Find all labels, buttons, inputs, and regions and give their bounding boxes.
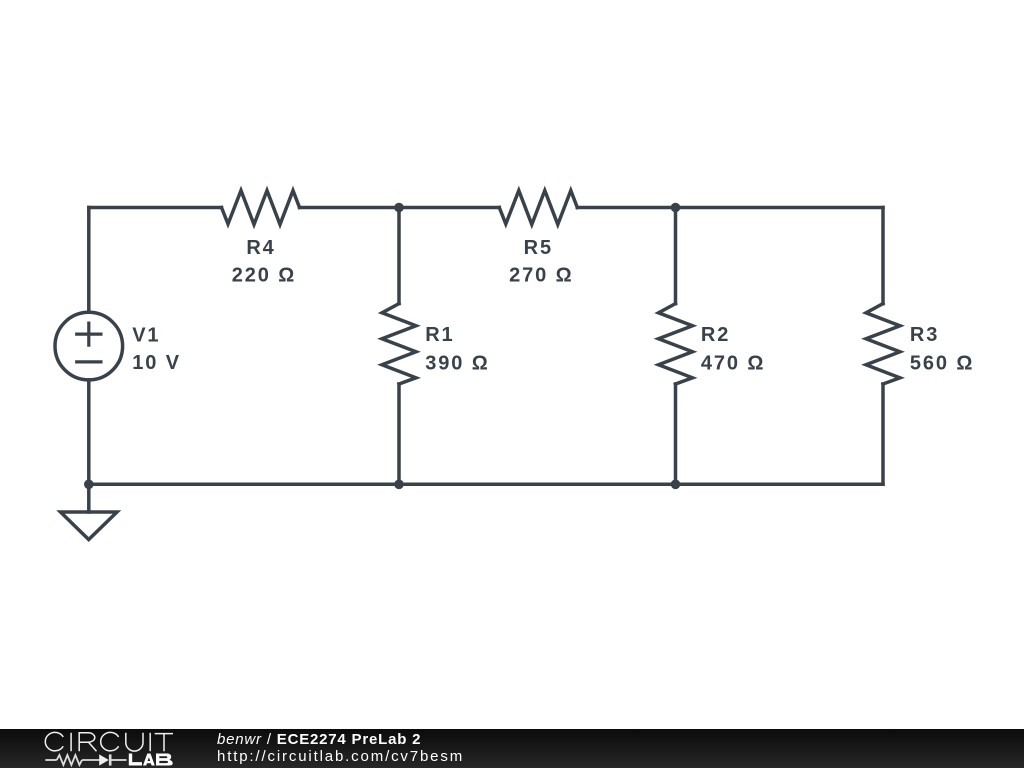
footer title line: benwr / ECE2274 PreLab 2	[217, 731, 421, 748]
logo diode cathode bar	[109, 754, 112, 765]
svg-text:220 Ω: 220 Ω	[232, 265, 296, 287]
wire ground stub	[87, 484, 91, 512]
node B junction dot (top, R2)	[671, 203, 681, 213]
svg-text:R4: R4	[246, 237, 275, 259]
logo resistor zigzag	[57, 755, 82, 765]
V1 plus sign	[77, 323, 101, 345]
resistor R3 zigzag	[866, 304, 900, 384]
logo resistor wire lead left	[45, 759, 56, 761]
svg-text:V1: V1	[132, 325, 160, 347]
logo letter U	[126, 733, 143, 751]
voltage source V1 circle	[55, 312, 123, 380]
svg-text:270 Ω: 270 Ω	[509, 265, 573, 287]
junction dot bottom-left (ground node)	[84, 480, 94, 490]
svg-text:560 Ω: 560 Ω	[910, 352, 974, 374]
svg-text:R1: R1	[425, 324, 454, 346]
logo letter I (second)	[149, 733, 151, 751]
footer watermark bar	[0, 729, 1024, 768]
logo letter C (second)	[101, 732, 119, 750]
logo LAB letter A	[143, 754, 155, 766]
logo LAB letter B	[156, 754, 173, 766]
svg-text:470 Ω: 470 Ω	[701, 352, 765, 374]
svg-text:390 Ω: 390 Ω	[425, 352, 489, 374]
footer url line	[217, 748, 464, 765]
logo letter C	[45, 732, 63, 750]
logo letter T	[155, 734, 173, 752]
resistor R5 zigzag	[499, 191, 577, 225]
ground symbol triangle	[61, 512, 118, 540]
logo letter I	[70, 733, 72, 751]
junction dot bottom R2	[671, 480, 681, 490]
wire left vertical top (V1 to top wire)	[87, 208, 91, 313]
wire R3 bottom stub	[881, 384, 885, 484]
logo wire to diode	[82, 759, 100, 761]
wire R1 bottom stub	[397, 384, 401, 484]
wire top-left horizontal from V1 to R4	[89, 206, 222, 210]
node A junction dot (top, R1)	[394, 203, 404, 213]
svg-text:R5: R5	[524, 237, 553, 259]
wire R2 bottom stub	[674, 384, 678, 484]
svg-text:R3: R3	[910, 324, 939, 346]
wire R1 top stub	[397, 208, 401, 304]
V1 minus sign	[77, 360, 101, 363]
wire R4 to node A	[300, 206, 400, 210]
resistor R1 zigzag	[382, 304, 416, 384]
wire R3 top stub	[881, 208, 885, 304]
CircuitLab logo	[0, 729, 200, 768]
wire left vertical bottom (V1 to bottom wire)	[87, 380, 91, 484]
wire node B to top-right corner	[676, 206, 884, 210]
resistor R4 zigzag	[222, 191, 300, 225]
wire R5 to node B	[577, 206, 675, 210]
logo letter R	[79, 733, 96, 751]
svg-text:10 V: 10 V	[132, 352, 181, 374]
logo LAB letter L	[129, 754, 142, 766]
wire node A to R5	[399, 206, 499, 210]
wire R2 top stub	[674, 208, 678, 304]
logo diode triangle	[99, 754, 109, 765]
wire bottom horizontal rail	[89, 483, 883, 487]
svg-text:R2: R2	[701, 324, 730, 346]
junction dot bottom R1	[394, 480, 404, 490]
logo wire right of diode	[111, 759, 127, 761]
resistor R2 zigzag	[659, 304, 693, 384]
